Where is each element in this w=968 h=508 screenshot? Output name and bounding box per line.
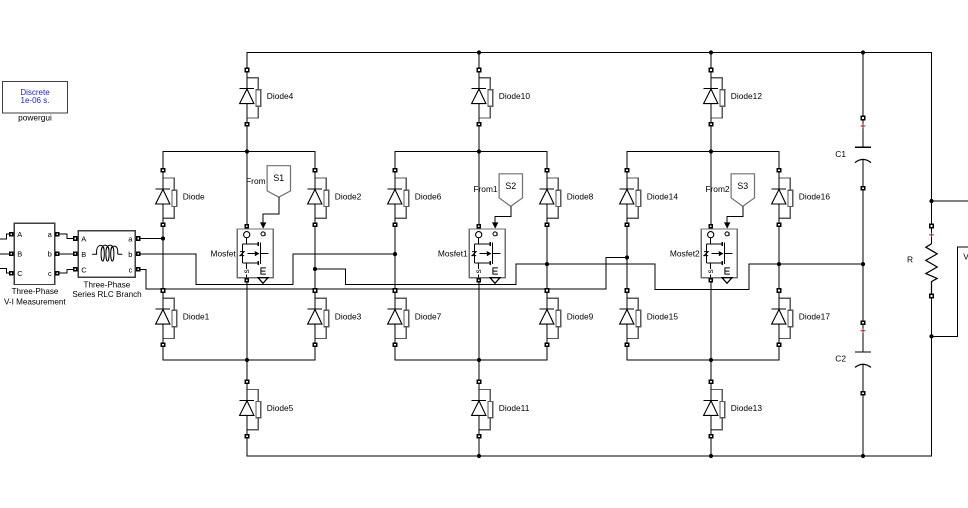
Diode3 bottom port bbox=[313, 343, 318, 348]
diode Diode14 bbox=[620, 172, 679, 222]
junction DC- bus bbox=[709, 454, 713, 458]
wire phase a to leg1 bbox=[141, 238, 164, 240]
wire C2 to DC- bbox=[862, 395, 864, 456]
wire source phase A input bbox=[0, 234, 11, 239]
svg-text:A: A bbox=[17, 230, 22, 239]
V-I port C bbox=[9, 271, 14, 276]
junction phase input bbox=[161, 236, 165, 240]
Diode13 top port bbox=[709, 380, 714, 385]
from tag S2 bbox=[499, 174, 522, 207]
wire R top lead bbox=[931, 201, 933, 244]
junction bridge top bbox=[709, 149, 713, 153]
wire top diode to bridge bus bbox=[246, 124, 248, 151]
diode Diode10 bbox=[472, 72, 531, 122]
C2 bottom port bbox=[861, 391, 866, 396]
svg-text:Diode4: Diode4 bbox=[267, 91, 294, 101]
wire left bridge column bbox=[162, 225, 164, 291]
diode Diode1 bbox=[156, 293, 210, 343]
Diode1 top port bbox=[161, 288, 166, 293]
svg-text:B: B bbox=[81, 250, 86, 259]
Diode7 bottom port bbox=[393, 343, 398, 348]
wire leg bottom bridge bus bbox=[395, 345, 547, 360]
RLC port C bbox=[73, 267, 78, 272]
wire mosfet source to bridge bus bbox=[246, 280, 248, 360]
diode Diode12 bbox=[704, 72, 763, 122]
from tag S3 bbox=[731, 174, 754, 207]
C2 polarity + bbox=[861, 328, 866, 333]
Diode10 top port bbox=[477, 68, 482, 73]
Diode17 top port bbox=[777, 288, 782, 293]
svg-text:Diode3: Diode3 bbox=[335, 312, 362, 322]
wire phase c to leg3 bbox=[141, 258, 628, 290]
junction DC- C branch bbox=[861, 454, 865, 458]
Diode6 bottom port bbox=[393, 223, 398, 228]
svg-text:Diode11: Diode11 bbox=[499, 403, 530, 413]
diode Diode7 bbox=[388, 293, 442, 343]
R bottom port bbox=[929, 294, 934, 299]
Diode4 bottom port bbox=[245, 122, 250, 127]
junction bridge bottom bbox=[477, 358, 481, 362]
Diode12 top port bbox=[709, 68, 714, 73]
svg-text:Diode12: Diode12 bbox=[731, 91, 763, 101]
svg-text:C: C bbox=[17, 269, 23, 278]
wire left bridge column bbox=[626, 225, 628, 291]
RLC port B bbox=[73, 252, 78, 257]
wire midpoint leg3 to capacitors bbox=[779, 263, 863, 265]
resistor R bbox=[926, 244, 937, 294]
svg-text:S1: S1 bbox=[273, 173, 284, 183]
V-I port c bbox=[55, 271, 60, 276]
svg-text:b: b bbox=[128, 250, 132, 259]
wire DC+ to C1 bbox=[862, 53, 864, 119]
diode Diode15 bbox=[620, 293, 679, 343]
svg-text:Mosfet2: Mosfet2 bbox=[670, 249, 700, 259]
Diode8 top port bbox=[545, 168, 550, 173]
wire top diode to bridge bus bbox=[478, 124, 480, 151]
svg-text:Diode14: Diode14 bbox=[647, 192, 679, 202]
powergui block bbox=[3, 82, 68, 114]
S1 gate arrowhead bbox=[260, 222, 266, 228]
svg-text:Diode1: Diode1 bbox=[183, 312, 210, 322]
svg-text:Diode8: Diode8 bbox=[567, 192, 594, 202]
wire R bottom lead bbox=[931, 298, 933, 336]
junction phase input bbox=[625, 255, 629, 259]
Diode15 bottom port bbox=[625, 343, 630, 348]
wire right bridge column bbox=[314, 225, 316, 291]
diode Diode13 bbox=[704, 384, 763, 434]
Diode5 top port bbox=[245, 380, 250, 385]
junction R bottom bbox=[929, 334, 933, 338]
svg-text:Mosfet1: Mosfet1 bbox=[438, 249, 468, 259]
Diode8 bottom port bbox=[545, 223, 550, 228]
Diode1 bottom port bbox=[161, 343, 166, 348]
RLC port b bbox=[136, 252, 141, 257]
junction bridge top bbox=[245, 149, 249, 153]
svg-text:A: A bbox=[81, 235, 86, 244]
wire midpoint leg2 to leg3 bbox=[547, 264, 779, 289]
diode Diode6 bbox=[388, 172, 442, 222]
wire Mosfet leg top bridge bus bbox=[163, 152, 315, 171]
svg-text:B: B bbox=[17, 250, 22, 259]
Mosfet source port s bbox=[244, 278, 249, 283]
Diode9 top port bbox=[545, 288, 550, 293]
diode Diode4 bbox=[240, 72, 294, 122]
svg-text:s: s bbox=[706, 269, 715, 273]
svg-text:Diode7: Diode7 bbox=[415, 312, 442, 322]
diode Diode11 bbox=[472, 384, 530, 434]
Diode6 top port bbox=[393, 168, 398, 173]
svg-text:b: b bbox=[48, 250, 52, 259]
RLC branch inductor symbol bbox=[92, 245, 122, 261]
wire C1 to C2 bbox=[862, 190, 864, 323]
svg-text:Diode6: Diode6 bbox=[415, 192, 442, 202]
svg-text:S2: S2 bbox=[505, 181, 516, 191]
junction R top bbox=[929, 199, 933, 203]
wire bridge bus to mosfet drain bbox=[246, 152, 248, 227]
Diode10 bottom port bbox=[477, 122, 482, 127]
Diode14 bottom port bbox=[625, 223, 630, 228]
junction DC+ C branch bbox=[861, 50, 865, 54]
svg-text:powergui: powergui bbox=[18, 113, 52, 123]
svg-text:Three-Phase: Three-Phase bbox=[12, 287, 59, 296]
wire bridge bus to mosfet drain bbox=[710, 152, 712, 227]
wire Mosfet2 leg top bridge bus bbox=[627, 152, 779, 171]
capacitor C2 bbox=[855, 325, 871, 391]
junction phase input bbox=[393, 252, 397, 256]
Diode3 top port bbox=[313, 288, 318, 293]
wire source phase B input bbox=[0, 253, 11, 255]
V-I port B bbox=[9, 252, 14, 257]
RLC port A bbox=[73, 236, 78, 241]
svg-text:Diode: Diode bbox=[183, 192, 205, 202]
Mosfet2 source port s bbox=[708, 278, 713, 283]
svg-text:Diode16: Diode16 bbox=[799, 192, 831, 202]
capacitor C1 bbox=[855, 120, 871, 186]
wire V-I b to RLC B bbox=[60, 253, 73, 255]
svg-text:From1: From1 bbox=[473, 184, 498, 194]
junction DC+ bus bbox=[477, 50, 481, 54]
wire left bridge column bbox=[394, 225, 396, 291]
R polarity + bbox=[929, 233, 934, 238]
Mosfet drain port d bbox=[244, 224, 249, 229]
svg-text:R: R bbox=[907, 254, 913, 264]
svg-text:From2: From2 bbox=[705, 184, 730, 194]
Mosfet1 source port s bbox=[476, 278, 481, 283]
junction bridge bottom bbox=[245, 358, 249, 362]
mosfet block Mosfet1 bbox=[469, 229, 505, 283]
junction DC midpoint bbox=[861, 262, 865, 266]
Diode17 bottom port bbox=[777, 343, 782, 348]
wire right bridge column bbox=[778, 225, 780, 291]
wire DC+ bus to top diode bbox=[478, 53, 480, 71]
from tag S1 bbox=[267, 166, 290, 198]
Diode16 top port bbox=[777, 168, 782, 173]
wire leg bottom bridge bus bbox=[627, 345, 779, 360]
svg-text:Mosfet: Mosfet bbox=[211, 249, 237, 259]
Diode2 top port bbox=[313, 168, 318, 173]
svg-text:Three-Phase: Three-Phase bbox=[84, 280, 131, 289]
svg-text:Diode5: Diode5 bbox=[267, 403, 294, 413]
wire mosfet source to bridge bus bbox=[478, 280, 480, 360]
junction bridge bottom bbox=[709, 358, 713, 362]
svg-text:Diode2: Diode2 bbox=[335, 192, 362, 202]
wire bottom diode to DC- bus bbox=[478, 436, 480, 456]
Diode7 top port bbox=[393, 288, 398, 293]
Diode14 top port bbox=[625, 168, 630, 173]
svg-text:Series RLC Branch: Series RLC Branch bbox=[72, 290, 141, 299]
diode Diode bbox=[156, 172, 205, 222]
diode Diode5 bbox=[240, 384, 294, 434]
junction bridge top bbox=[477, 149, 481, 153]
wire DC+ bus to top diode bbox=[710, 53, 712, 71]
Diode top port bbox=[161, 168, 166, 173]
Diode15 top port bbox=[625, 288, 630, 293]
C1 top port bbox=[861, 116, 866, 121]
junction DC+ bus bbox=[709, 50, 713, 54]
V-I port b bbox=[55, 252, 60, 257]
wire Mosfet1 leg top bridge bus bbox=[395, 152, 547, 171]
svg-text:Diode13: Diode13 bbox=[731, 403, 763, 413]
svg-text:1e-06 s.: 1e-06 s. bbox=[21, 96, 50, 105]
V-I port A bbox=[9, 232, 14, 237]
svg-text:Diode15: Diode15 bbox=[647, 312, 679, 322]
S3 gate arrowhead bbox=[724, 222, 730, 228]
diode Diode3 bbox=[308, 293, 362, 343]
wire top diode to bridge bus bbox=[710, 124, 712, 151]
junction midpoint tap bbox=[313, 267, 317, 271]
Diode11 top port bbox=[477, 380, 482, 385]
diode Diode2 bbox=[308, 172, 362, 222]
junction midpoint tap bbox=[545, 262, 549, 266]
wire mosfet source to bridge bus bbox=[710, 280, 712, 360]
Diode bottom port bbox=[161, 223, 166, 228]
Diode9 bottom port bbox=[545, 343, 550, 348]
RLC port a bbox=[136, 236, 141, 241]
wire bridge bus to bottom diode bbox=[478, 360, 480, 382]
junction DC- bus bbox=[477, 454, 481, 458]
junction midpoint tap bbox=[777, 262, 781, 266]
wire leg bottom bridge bus bbox=[163, 345, 315, 360]
RLC port c bbox=[136, 267, 141, 272]
R top port bbox=[929, 224, 934, 229]
svg-text:S3: S3 bbox=[737, 181, 748, 191]
Diode2 bottom port bbox=[313, 223, 318, 228]
S2 gate arrowhead bbox=[492, 222, 498, 228]
svg-text:V: V bbox=[963, 252, 968, 262]
svg-text:V-I Measurement: V-I Measurement bbox=[4, 297, 66, 306]
C1 bottom port bbox=[861, 186, 866, 191]
wire S2 to gate bbox=[495, 206, 511, 222]
C2 top port bbox=[861, 321, 866, 326]
wire V-I c to RLC C bbox=[60, 269, 73, 273]
svg-text:s: s bbox=[474, 269, 483, 273]
diode Diode16 bbox=[772, 172, 831, 222]
wire DC+ top bus bbox=[247, 53, 932, 202]
V-I port a bbox=[55, 232, 60, 237]
diode Diode17 bbox=[772, 293, 831, 343]
diode Diode9 bbox=[540, 293, 594, 343]
Diode4 top port bbox=[245, 68, 250, 73]
svg-text:From: From bbox=[246, 176, 266, 186]
C1 polarity + bbox=[861, 124, 866, 129]
wire bridge bus to bottom diode bbox=[710, 360, 712, 382]
svg-text:C1: C1 bbox=[835, 149, 846, 159]
svg-text:Diode10: Diode10 bbox=[499, 91, 531, 101]
three-phase V-I measurement block bbox=[14, 223, 54, 284]
wire V-I a to RLC A bbox=[60, 234, 73, 238]
Diode13 bottom port bbox=[709, 434, 714, 439]
svg-text:s: s bbox=[242, 269, 251, 273]
wire source phase C input bbox=[0, 269, 11, 274]
wire bridge bus to mosfet drain bbox=[478, 152, 480, 227]
Mosfet2 drain port d bbox=[708, 224, 713, 229]
svg-text:Diode9: Diode9 bbox=[567, 312, 594, 322]
wire DC- bottom bus bbox=[247, 336, 932, 456]
svg-text:c: c bbox=[48, 269, 52, 278]
wire bridge bus to bottom diode bbox=[246, 360, 248, 382]
wire phase b to leg2 bbox=[141, 254, 396, 285]
Diode5 bottom port bbox=[245, 434, 250, 439]
wire to voltage measurement + bbox=[932, 200, 968, 202]
mosfet block Mosfet bbox=[237, 229, 273, 283]
svg-text:C: C bbox=[81, 265, 87, 274]
svg-text:c: c bbox=[129, 265, 133, 274]
mosfet block Mosfet2 bbox=[701, 229, 737, 283]
three-phase series RLC branch block bbox=[78, 231, 135, 278]
Diode16 bottom port bbox=[777, 223, 782, 228]
svg-text:C2: C2 bbox=[835, 354, 846, 364]
svg-text:Diode17: Diode17 bbox=[799, 312, 831, 322]
wire midpoint leg1 to leg2 bbox=[315, 264, 547, 284]
wire right bridge column bbox=[546, 225, 548, 291]
Diode11 bottom port bbox=[477, 434, 482, 439]
wire to voltage measurement - bbox=[932, 247, 968, 336]
Mosfet1 drain port d bbox=[476, 224, 481, 229]
wire bottom diode to DC- bus bbox=[710, 436, 712, 456]
wire S1 to gate bbox=[263, 197, 279, 222]
Diode12 bottom port bbox=[709, 122, 714, 127]
diode Diode8 bbox=[540, 172, 594, 222]
wire S3 to gate bbox=[727, 206, 743, 222]
